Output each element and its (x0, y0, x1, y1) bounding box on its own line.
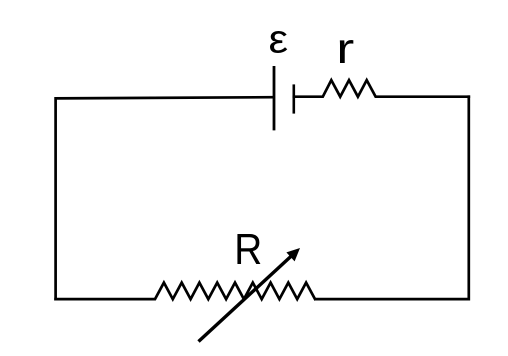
svg-text:R: R (234, 225, 262, 274)
svg-text:r: r (336, 25, 354, 73)
svg-text:ε: ε (269, 17, 289, 61)
